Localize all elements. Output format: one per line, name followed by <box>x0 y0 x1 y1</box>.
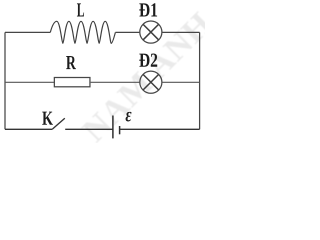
wire right vertical <box>199 32 201 129</box>
resistor R <box>54 78 90 87</box>
wire switch to battery <box>65 128 113 130</box>
wire bottom-left segment <box>5 128 52 130</box>
svg-text:Đ2: Đ2 <box>139 50 158 72</box>
svg-text:L: L <box>77 0 85 22</box>
wire battery to bottom-right corner <box>120 128 200 130</box>
switch K blade <box>52 118 64 129</box>
svg-text:ε: ε <box>125 104 132 126</box>
battery long plate <box>112 116 114 139</box>
lamp D2 cross <box>143 75 158 90</box>
inductor L <box>50 21 115 43</box>
wire top-left segment <box>5 31 50 33</box>
lamp D1 cross <box>143 24 158 39</box>
svg-text:Đ1: Đ1 <box>139 0 158 22</box>
wire resistor to lamp D2 <box>91 81 140 83</box>
wire lamp D2 to right wire <box>162 81 199 83</box>
wire middle-left segment <box>5 81 54 83</box>
wire lamp D1 to right corner <box>162 31 199 33</box>
battery short plate <box>119 126 121 134</box>
wire left vertical <box>4 32 6 129</box>
lamp D1 circle <box>140 21 162 43</box>
svg-text:R: R <box>66 52 76 74</box>
svg-text:K: K <box>42 108 53 130</box>
wire coil to lamp D1 <box>115 31 139 33</box>
lamp D2 circle <box>140 71 162 93</box>
